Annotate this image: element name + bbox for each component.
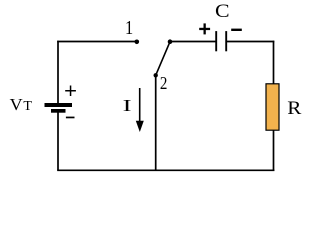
- current arrowhead: [136, 121, 144, 132]
- svg-text:2: 2: [160, 73, 168, 93]
- resistor R body: [266, 84, 279, 130]
- svg-text:R: R: [287, 98, 301, 119]
- current arrow shaft: [139, 88, 141, 123]
- wire: left rail lower (battery bottom to bottom-left corner): [57, 113, 59, 171]
- capacitor C right plate: [225, 31, 227, 51]
- node 1 dot: [135, 40, 140, 45]
- battery VT top plate (long): [45, 103, 73, 107]
- wire: capacitor right plate to top-right corner: [227, 41, 275, 43]
- svg-text:I: I: [123, 96, 132, 115]
- svg-text:1: 1: [125, 17, 133, 39]
- wire: right rail upper (corner down to resistor top): [273, 41, 275, 84]
- switch blade (open, from pivot to node 2): [156, 42, 170, 76]
- wire: middle vertical from node 2 to bottom: [155, 75, 157, 170]
- wire: left rail upper (corner down to battery top): [57, 41, 59, 104]
- capacitor C left plate: [215, 31, 217, 51]
- battery VT bottom plate (short): [51, 109, 66, 113]
- wire: top-left horizontal from left rail to node 1: [57, 41, 137, 43]
- wire: right rail lower (resistor bottom to bottom-right corner): [273, 130, 275, 171]
- capacitor - sign (bold): [231, 29, 242, 31]
- node 2 dot: [154, 73, 158, 77]
- wire: pivot to capacitor left plate: [170, 41, 216, 43]
- svg-text:V: V: [10, 95, 24, 114]
- svg-text:T: T: [23, 99, 32, 114]
- wire: bottom horizontal: [57, 169, 274, 171]
- svg-text:C: C: [215, 1, 230, 22]
- battery - sign: [66, 117, 75, 119]
- switch pivot dot: [168, 39, 173, 44]
- capacitor + sign (bold): [199, 23, 210, 34]
- battery + sign: [65, 86, 76, 97]
